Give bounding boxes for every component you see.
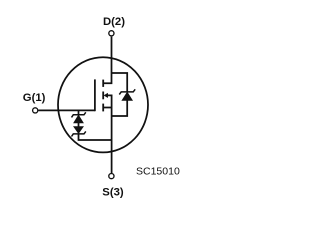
wire gate-zener bottom to source line <box>79 134 112 140</box>
wire body diode anode to bottom rail <box>112 100 128 116</box>
zener diode gate lower: cathode bar <box>72 131 86 136</box>
svg-text:S(3): S(3) <box>102 186 124 198</box>
svg-text:G(1): G(1) <box>23 92 46 104</box>
MOSFET Q1 channel segment drain <box>102 80 104 87</box>
svg-text:D(2): D(2) <box>103 16 125 28</box>
zener diode gate lower: anode triangle <box>74 127 83 134</box>
wire source line down to terminal <box>111 95 113 173</box>
wire between gate zeners <box>78 123 80 127</box>
wire gate lead <box>38 109 95 111</box>
terminal G(1) circle <box>33 108 38 113</box>
zener diode body: anode triangle <box>122 92 132 100</box>
MOSFET Q1 body arrow <box>104 93 108 97</box>
wire drain lead down to MOSFET drain stub <box>103 37 111 84</box>
MOSFET Q1 channel segment source <box>102 104 104 112</box>
MOSFET Q1 channel segment body <box>102 92 104 100</box>
wire source stub <box>103 107 111 109</box>
zener diode gate upper: anode triangle <box>74 115 83 123</box>
zener diode body: cathode bar <box>119 89 135 94</box>
terminal D(2) circle <box>109 31 114 36</box>
wire gate-zener branch lead <box>78 110 80 114</box>
wire body stub to source line <box>108 94 112 97</box>
wire top rail to body diode <box>112 73 128 92</box>
MOSFET Q1 gate plate <box>94 79 96 111</box>
terminal S(3) circle <box>109 174 114 179</box>
svg-text:SC15010: SC15010 <box>136 165 180 177</box>
envelope circle <box>58 57 148 152</box>
zener diode gate upper: cathode bar <box>72 112 86 117</box>
